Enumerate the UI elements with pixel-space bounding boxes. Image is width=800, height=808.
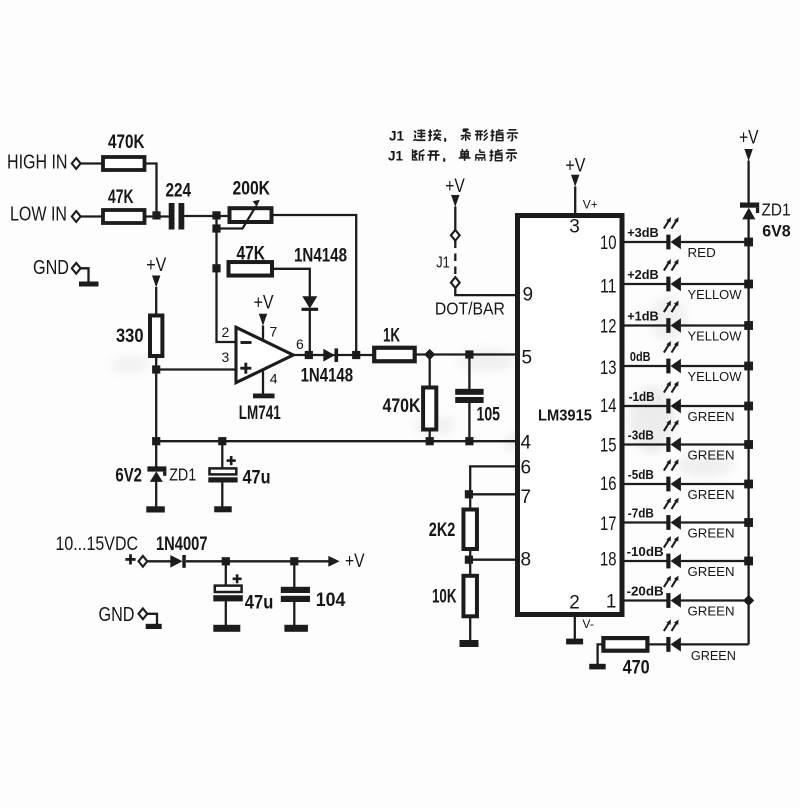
- svg-text:+3dB: +3dB: [627, 225, 659, 240]
- svg-text:DOT/BAR: DOT/BAR: [435, 299, 505, 319]
- node LED rail row 7: [744, 480, 753, 489]
- ground R10K: [460, 640, 479, 647]
- svg-text:4: 4: [270, 371, 278, 387]
- LED D4 YELLOW: [664, 341, 681, 373]
- svg-text:-10dB: -10dB: [627, 544, 664, 559]
- svg-text:5: 5: [522, 348, 533, 369]
- svg-text:GREEN: GREEN: [688, 487, 735, 502]
- node pin8 junction: [465, 556, 473, 564]
- svg-text:470: 470: [623, 658, 650, 679]
- wire supply + to D 1N4007: [148, 560, 172, 562]
- power +V1 above 330: [146, 255, 166, 288]
- wire +V1 to R330: [155, 287, 157, 316]
- LED D10 GREEN: [664, 576, 681, 608]
- svg-text:+V: +V: [345, 551, 365, 572]
- ground C47u: [214, 506, 232, 512]
- dashed wire J1: [454, 241, 456, 278]
- wire IC pin to LED row 3: [625, 324, 668, 326]
- svg-text:6: 6: [521, 458, 532, 479]
- wire IC pin to LED row 4: [625, 365, 668, 367]
- power +V3 J1: [445, 176, 465, 207]
- svg-text:-3dB: -3dB: [628, 427, 654, 442]
- wire IC pin to LED row 8: [625, 521, 668, 523]
- node opamp output: [305, 351, 313, 359]
- node 1K output diamond: [424, 349, 435, 360]
- svg-text:10...15VDC: 10...15VDC: [56, 534, 139, 555]
- ground zener 6V2: [146, 506, 165, 512]
- svg-text:10K: 10K: [432, 587, 457, 608]
- svg-text:1K: 1K: [383, 326, 400, 347]
- svg-text:16: 16: [600, 474, 617, 495]
- wire zener 6V2 to ground: [155, 482, 157, 508]
- svg-text:18: 18: [600, 550, 617, 571]
- node LED rail row 10 diamond: [743, 595, 754, 606]
- svg-text:+V: +V: [254, 293, 274, 314]
- wire LED row 8 to rail: [681, 521, 749, 523]
- svg-text:GREEN: GREEN: [688, 525, 735, 540]
- LED D7 GREEN: [664, 459, 681, 491]
- wire IC pin2 V-: [574, 617, 576, 639]
- svg-text:1N4148: 1N4148: [301, 366, 354, 387]
- zener ZD1 6V8: [740, 203, 759, 220]
- svg-text:12: 12: [600, 317, 617, 338]
- svg-text:47K: 47K: [108, 187, 134, 208]
- IC LM3915 body: [518, 216, 623, 615]
- wire LED row 3 to rail: [681, 324, 749, 326]
- svg-text:330: 330: [116, 326, 144, 347]
- terminal GND2: [139, 608, 148, 619]
- svg-text:2: 2: [222, 324, 230, 340]
- svg-text:6V8: 6V8: [762, 223, 791, 241]
- wire IC pin to LED row 10: [625, 599, 668, 601]
- wire LED row 10 to rail: [681, 599, 749, 601]
- svg-text:+V: +V: [146, 255, 166, 276]
- LED D3 YELLOW: [664, 301, 681, 333]
- wire R470 to LED11: [648, 643, 668, 645]
- svg-text:9: 9: [523, 285, 534, 306]
- svg-text:-1dB: -1dB: [629, 389, 655, 404]
- resistor 470: [603, 638, 647, 651]
- LED D8 GREEN: [664, 498, 681, 530]
- svg-text:1N4007: 1N4007: [156, 534, 208, 555]
- svg-text:6: 6: [296, 336, 304, 352]
- wire LED row 7 to rail: [681, 483, 749, 485]
- wire opamp pin4 to ground: [262, 370, 264, 394]
- svg-text:+V: +V: [739, 127, 759, 148]
- svg-text:0dB: 0dB: [630, 349, 651, 364]
- wire R470K to corner down to LOW line: [144, 164, 157, 217]
- wire ground rail to IC pin4: [156, 440, 515, 442]
- capacitor 105: [455, 389, 483, 395]
- node supply C104: [290, 557, 298, 565]
- node C105 top: [465, 350, 473, 358]
- power +V2 opamp pin7: [254, 293, 274, 326]
- capacitor 104: [281, 587, 310, 602]
- wire pin8: [469, 559, 515, 561]
- wire LED row 6 to rail: [681, 443, 749, 445]
- wire C47u2 to ground: [225, 601, 227, 625]
- svg-text:105: 105: [477, 405, 501, 426]
- wire LED rail right: [747, 219, 749, 644]
- svg-text:2: 2: [569, 593, 580, 614]
- wire J1 to IC pin9: [455, 288, 515, 295]
- resistor 330: [150, 316, 162, 357]
- svg-text:+V: +V: [445, 176, 465, 197]
- LED D6 GREEN: [664, 420, 681, 452]
- svg-text:YELLOW: YELLOW: [688, 287, 743, 302]
- wire opamp plus input: [156, 368, 236, 370]
- power +V5 LED rail: [739, 127, 759, 161]
- svg-text:6V2: 6V2: [115, 466, 142, 487]
- wire pin7 node to R2K2: [469, 494, 471, 510]
- svg-text:104: 104: [316, 590, 346, 611]
- wire R330 to rail with opamp tap: [155, 356, 157, 441]
- svg-text:GND: GND: [99, 604, 135, 626]
- wire C47u to ground: [221, 482, 223, 507]
- plus sign supply: [125, 554, 135, 564]
- resistor 470K input: [103, 157, 145, 170]
- resistor 47K input: [103, 210, 145, 223]
- svg-text:GREEN: GREEN: [688, 447, 735, 462]
- node LED rail row 3: [744, 321, 753, 330]
- resistor 1K: [374, 348, 415, 362]
- svg-text:V-: V-: [582, 619, 594, 631]
- svg-text:3: 3: [569, 217, 580, 238]
- wire C224 to pot 200K: [184, 215, 230, 217]
- svg-text:GND: GND: [33, 257, 69, 279]
- svg-text:47K: 47K: [237, 244, 266, 265]
- wire D 1N4007 to +V arrow: [186, 560, 329, 562]
- svg-text:HIGH IN: HIGH IN: [7, 152, 68, 174]
- ground GND2 bar: [146, 624, 162, 629]
- node supply C47u2: [222, 557, 230, 565]
- wire IC pin to LED row 7: [625, 483, 668, 485]
- LED D9 GREEN: [664, 536, 681, 568]
- terminal HIGH IN: [72, 158, 81, 169]
- svg-text:14: 14: [600, 396, 617, 417]
- svg-text:13: 13: [600, 358, 617, 379]
- wire R1K to IC pin5: [413, 353, 515, 355]
- svg-text:LM741: LM741: [239, 403, 281, 424]
- svg-text:2K2: 2K2: [429, 520, 456, 541]
- wire rail to C47u: [221, 441, 223, 469]
- potentiometer 200K: [230, 200, 272, 229]
- svg-text:11: 11: [600, 277, 617, 298]
- svg-text:ZD1: ZD1: [169, 465, 196, 485]
- svg-text:7: 7: [521, 487, 532, 508]
- svg-text:4: 4: [521, 433, 532, 454]
- node LED rail row 2: [744, 280, 753, 289]
- terminal GND1: [72, 263, 81, 274]
- svg-text:YELLOW: YELLOW: [688, 369, 743, 384]
- node LED rail row 1: [744, 238, 753, 247]
- diode D2 1N4148 vertical: [302, 296, 319, 311]
- wire GND2 stub: [148, 614, 158, 624]
- node LED rail row 6: [744, 440, 753, 449]
- svg-text:224: 224: [166, 181, 192, 202]
- node LED rail row 8: [744, 518, 753, 527]
- note J1 open dot mode (Chinese) line 2: [0, 0, 1, 1]
- wire IC pin to LED row 9: [625, 560, 668, 562]
- svg-text:YELLOW: YELLOW: [688, 328, 743, 343]
- node rail C47u: [218, 437, 226, 445]
- wire opamp pin7: [262, 326, 264, 342]
- svg-text:+1dB: +1dB: [627, 308, 659, 323]
- wire +V3 to J1: [454, 207, 456, 231]
- node pin6/7 junction: [465, 490, 473, 498]
- svg-text:-20dB: -20dB: [627, 583, 664, 598]
- wire C104 down: [293, 561, 295, 587]
- node opamp plus tap: [152, 365, 160, 373]
- wire rail corner to LED11: [681, 643, 749, 645]
- LED D1 RED: [664, 217, 681, 249]
- wire R2K2 to R10K: [469, 549, 471, 576]
- wire wiper to divider: [217, 227, 244, 229]
- svg-text:GREEN: GREEN: [688, 564, 735, 579]
- wire IC pin to LED row 6: [625, 443, 668, 445]
- wire IC pin to LED row 2: [625, 283, 668, 285]
- ground C47u supply: [213, 625, 240, 632]
- wire C105 top: [468, 355, 470, 390]
- wire node to R470K2 top: [429, 355, 431, 389]
- power +V supply arrow right: [328, 551, 364, 572]
- wire +V4 to IC V+: [574, 187, 576, 214]
- resistor 10K: [463, 576, 477, 617]
- terminal LOW IN: [72, 211, 81, 222]
- power +V4 LM3915: [565, 156, 585, 187]
- wire C105 bottom to rail: [468, 402, 470, 441]
- wire LOW IN to R47K: [80, 215, 103, 217]
- svg-text:1N4148: 1N4148: [294, 246, 347, 267]
- wire GND1 stub: [80, 268, 89, 282]
- wire rail to zener ZD1 6V2: [155, 441, 157, 467]
- resistor 2K2: [463, 510, 477, 550]
- svg-text:GREEN: GREEN: [688, 603, 735, 618]
- svg-text:GREEN: GREEN: [688, 409, 735, 424]
- svg-text:+2dB: +2dB: [627, 267, 659, 282]
- LED D5 GREEN: [664, 381, 681, 413]
- ground C104: [284, 625, 308, 632]
- op-amp LM741: [236, 327, 293, 382]
- ground op-amp pin4: [253, 394, 275, 399]
- node 47K2 junction: [212, 264, 220, 272]
- svg-text:J1: J1: [389, 128, 405, 143]
- wire R47K2 to vertical diode D2: [272, 269, 310, 297]
- LED D2 YELLOW: [664, 259, 681, 291]
- svg-text:200K: 200K: [233, 179, 271, 200]
- node feedback/output: [352, 351, 360, 359]
- wire R10K to ground: [469, 616, 471, 640]
- wire IC pin to LED row 5: [625, 405, 668, 407]
- wire C104 to ground: [293, 602, 295, 625]
- svg-text:RED: RED: [688, 245, 716, 260]
- terminal J1 bottom: [451, 277, 460, 288]
- diode D3 1N4148 horizontal: [323, 348, 338, 362]
- node LED rail row 5: [744, 402, 753, 411]
- node 470K/LOW junction: [152, 211, 160, 219]
- svg-text:ZD1: ZD1: [762, 200, 791, 220]
- svg-text:V+: V+: [583, 200, 598, 212]
- capacitor 47u reference: [208, 456, 237, 483]
- wire LED row 5 to rail: [681, 405, 749, 407]
- capacitor 47u supply: [213, 574, 243, 601]
- svg-text:GREEN: GREEN: [691, 648, 736, 663]
- svg-text:8: 8: [521, 550, 532, 571]
- wire IC pin7: [470, 493, 515, 495]
- node rail left: [152, 437, 160, 445]
- svg-text:1: 1: [606, 592, 617, 613]
- svg-text:17: 17: [600, 514, 617, 535]
- svg-text:-5dB: -5dB: [628, 467, 654, 482]
- svg-text:-7dB: -7dB: [628, 505, 654, 520]
- ground GND1 bar: [79, 282, 99, 287]
- node wiper junction: [212, 224, 220, 232]
- diode 1N4007: [170, 555, 186, 568]
- node LED rail row 9: [744, 557, 753, 566]
- wire IC pin6 loop: [470, 466, 515, 494]
- capacitor 224: [169, 203, 175, 230]
- svg-text:J1: J1: [436, 255, 450, 272]
- svg-text:LM3915: LM3915: [538, 408, 592, 425]
- wire R470K2 bottom to rail: [429, 429, 431, 441]
- svg-text:3: 3: [222, 349, 230, 365]
- terminal supply plus: [139, 556, 148, 567]
- wire HIGH IN to R470K: [80, 162, 103, 164]
- wire divider vertical to pin2: [217, 216, 237, 342]
- wire LED row 2 to rail: [681, 283, 749, 285]
- zener ZD1 6V2: [147, 466, 166, 482]
- svg-text:470K: 470K: [108, 132, 145, 153]
- svg-text:J1: J1: [388, 149, 404, 164]
- svg-text:470K: 470K: [383, 396, 421, 417]
- node rail 470K2: [426, 437, 434, 445]
- svg-text:47u: 47u: [243, 468, 271, 489]
- ground R470: [589, 664, 606, 670]
- wire LED row 4 to rail: [681, 365, 749, 367]
- svg-text:LOW IN: LOW IN: [10, 204, 67, 226]
- wire LED row 1 to rail: [681, 241, 749, 243]
- wire +V5 to zener ZD1 6V8: [747, 161, 749, 204]
- wire pot output to feedback corner: [272, 215, 357, 351]
- svg-text:47u: 47u: [245, 593, 273, 614]
- node LED rail row 4: [744, 362, 753, 371]
- wire IC pin to LED row 1: [625, 241, 668, 243]
- note J1 connect bar mode (Chinese) line 1: [0, 0, 1, 1]
- resistor 47K feedback: [229, 262, 273, 276]
- wire C47u2 down: [225, 561, 227, 586]
- ground V- bar: [566, 639, 583, 645]
- node rail C105: [465, 437, 473, 445]
- wire R470 left to ground: [598, 644, 604, 664]
- terminal J1 top: [451, 230, 460, 241]
- LED D11 GREEN: [664, 620, 681, 652]
- svg-text:7: 7: [270, 324, 278, 340]
- node divider top: [212, 211, 220, 219]
- svg-text:+V: +V: [565, 156, 585, 177]
- svg-text:10: 10: [600, 233, 617, 254]
- wire LED row 9 to rail: [681, 560, 749, 562]
- wire D2 cathode to output node: [309, 311, 311, 356]
- resistor 470K filter: [423, 388, 436, 430]
- wire opamp output to R1K: [293, 354, 376, 356]
- wire R47K to C224: [144, 215, 170, 217]
- svg-text:15: 15: [600, 436, 617, 457]
